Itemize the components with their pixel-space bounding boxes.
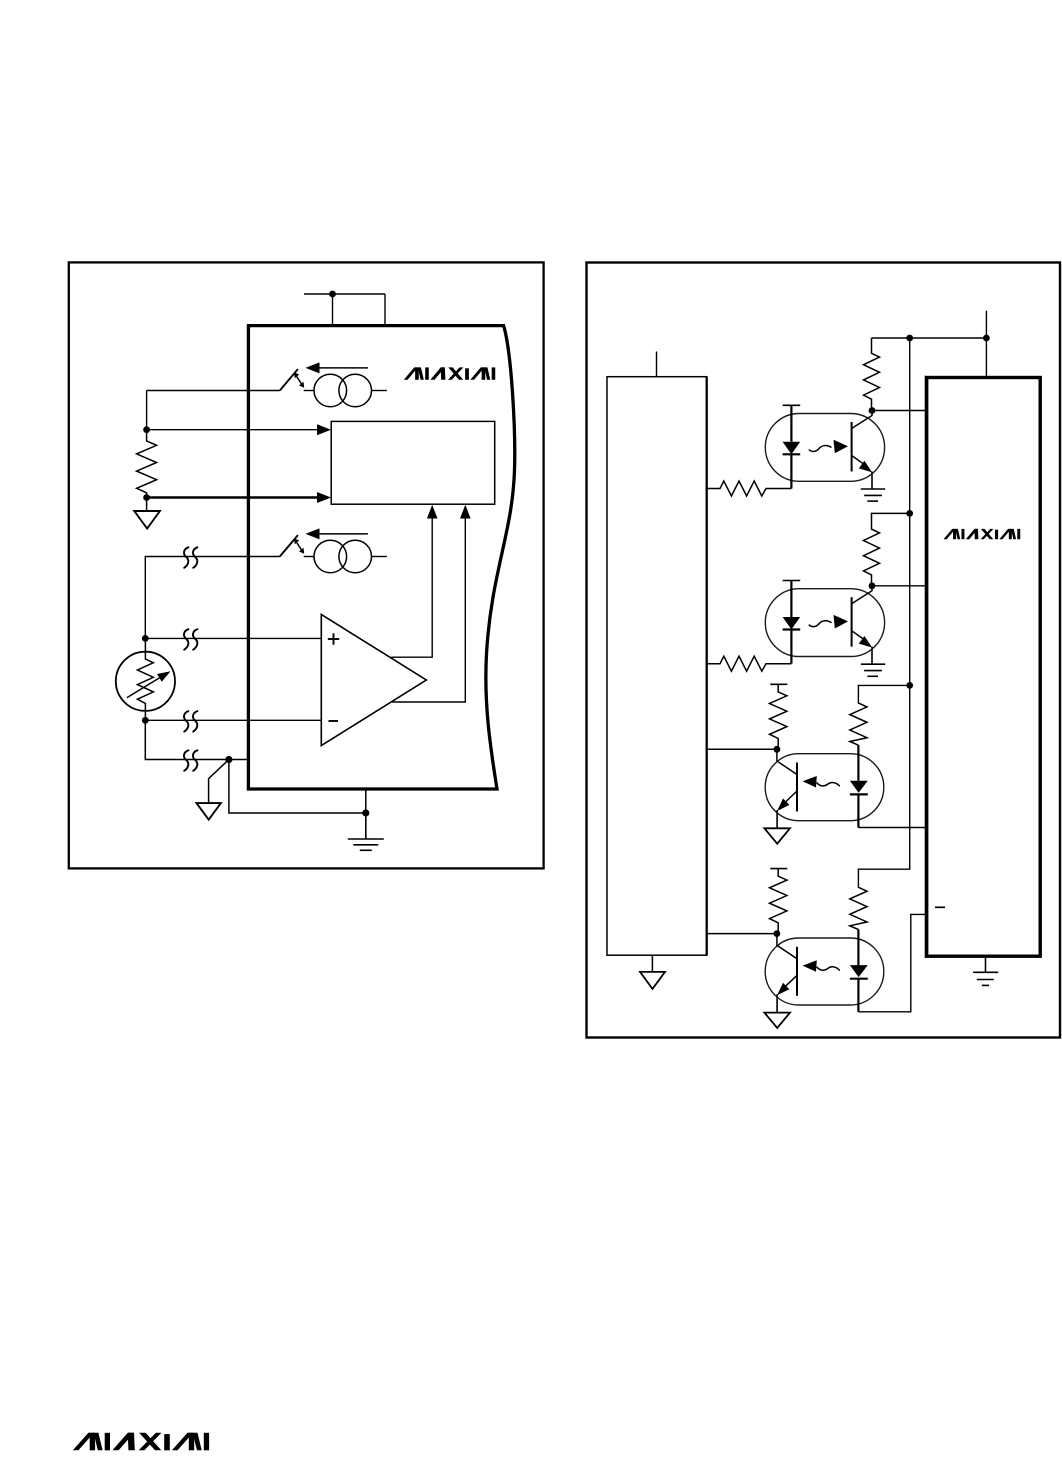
node supply junction — [329, 291, 336, 298]
wire break S1 — [184, 547, 197, 568]
resistor RL (pullup with T pin) — [770, 683, 787, 685]
figure 2 border frame — [587, 263, 1061, 1038]
op-amp + label — [328, 633, 339, 644]
wire IC bottom pin — [365, 789, 367, 813]
phototransistor Q — [851, 422, 853, 472]
IC U1 outline (torn right edge) — [248, 326, 514, 789]
resistor R2A (pullup opto1) — [864, 338, 880, 411]
optocoupler U6 (template, NPN left / LED right) — [707, 684, 884, 843]
phototransistor Q — [796, 763, 798, 812]
ground (open triangle) at node E — [209, 760, 229, 804]
wire op-amp out to ADC (arrow) — [391, 518, 432, 657]
stadium body — [765, 414, 884, 482]
resistor R1 — [137, 430, 157, 498]
wire opto4 LED to U3 — [858, 914, 926, 1011]
left wire — [707, 748, 777, 750]
MAXIM logo U1 — [404, 367, 495, 379]
resistor R2B (pullup opto2) — [864, 513, 910, 585]
node V+ — [983, 335, 990, 342]
earth ground under U3 — [973, 956, 998, 985]
wire to op-amp - — [145, 719, 321, 721]
LED D — [857, 745, 859, 781]
wire V+ top — [304, 294, 385, 326]
IC U3 (right block) — [927, 378, 1040, 957]
node rail mid2 — [906, 682, 913, 689]
node E — [225, 756, 232, 763]
wire rail to opto3 R — [858, 685, 909, 702]
wire I2 to node C — [145, 557, 146, 639]
node B — [143, 494, 150, 501]
MAXIM logo U3 — [944, 529, 1021, 539]
wire rail — [858, 338, 909, 886]
earth ground — [348, 813, 384, 850]
wire op-amp out2 to ADC (arrow) — [392, 518, 465, 702]
optocoupler U5 — [707, 581, 886, 677]
wire to U3 — [872, 410, 927, 412]
wire break S3 — [184, 711, 197, 732]
op-amp - label — [329, 720, 339, 722]
left block (driver) — [607, 377, 707, 956]
wire break S2 — [184, 629, 197, 650]
figure 1 border frame — [69, 262, 544, 868]
pin stub top of left block — [656, 352, 658, 377]
node H — [774, 746, 781, 753]
optocoupler U4 (template, LED left / NPN right) — [707, 405, 886, 501]
current source I1 with switch — [147, 362, 387, 406]
ground (open triangle) — [764, 828, 790, 843]
LED D — [783, 442, 801, 454]
op-amp U2 — [321, 615, 426, 746]
node D — [142, 717, 149, 724]
wire to ADC in (arrow) — [147, 429, 318, 431]
MAXIM logo footer — [73, 1433, 209, 1451]
node C — [142, 635, 149, 642]
ground under left block — [651, 955, 653, 972]
resistor RR — [850, 702, 867, 745]
node F — [869, 407, 876, 414]
wire supply top — [985, 311, 987, 378]
node rail top — [906, 335, 913, 342]
node G — [869, 582, 876, 589]
wire I1 to R1 — [146, 391, 148, 430]
wire to GND node — [229, 760, 366, 814]
ADC block — [331, 421, 495, 504]
left wire + resistor — [707, 481, 792, 496]
wire to U3 — [872, 585, 927, 587]
wire to op-amp + — [145, 637, 321, 639]
wire break S4 — [184, 750, 197, 771]
wire bottom return — [145, 720, 248, 759]
light arrow — [817, 782, 840, 786]
earth ground — [861, 488, 885, 490]
pin - label — [935, 906, 945, 908]
ground (open triangle) under R1 — [146, 498, 148, 512]
LED anode T pin — [783, 404, 801, 406]
node rail mid1 — [906, 510, 913, 517]
light arrow — [809, 446, 832, 452]
current source I2 with switch — [147, 528, 387, 572]
node A — [143, 426, 150, 433]
node GND — [362, 809, 369, 816]
optocoupler U7 — [707, 869, 884, 1028]
wire opto3 LED to U3 — [858, 827, 926, 829]
stadium body — [765, 754, 884, 821]
thermistor RT1 — [116, 638, 175, 720]
wire to ADC in thick (arrow) — [147, 496, 318, 499]
